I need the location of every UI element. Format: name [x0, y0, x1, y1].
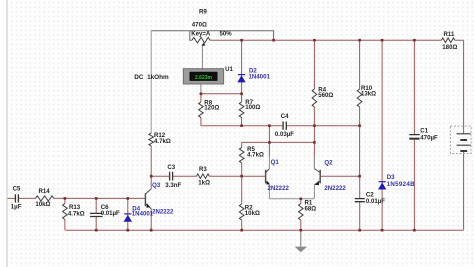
svg-text:Q1: Q1: [271, 159, 280, 166]
svg-text:C4: C4: [281, 113, 289, 120]
svg-text:470µF: 470µF: [420, 135, 438, 142]
svg-text:Key=A: Key=A: [191, 31, 211, 38]
svg-text:180Ω: 180Ω: [442, 44, 457, 51]
svg-text:U1: U1: [225, 66, 233, 73]
svg-text:2.623m: 2.623m: [195, 75, 213, 81]
svg-text:R11: R11: [444, 31, 455, 38]
svg-text:Q2: Q2: [324, 159, 333, 166]
svg-text:1kΩ: 1kΩ: [198, 180, 210, 187]
svg-text:10kΩ: 10kΩ: [35, 201, 50, 208]
svg-text:3.3nF: 3.3nF: [165, 182, 181, 189]
svg-text:0.01µF: 0.01µF: [101, 210, 120, 217]
svg-text:1µF: 1µF: [11, 204, 22, 211]
svg-text:68Ω: 68Ω: [305, 205, 317, 212]
svg-text:DC 1kOhm: DC 1kOhm: [134, 74, 169, 81]
svg-text:560Ω: 560Ω: [318, 92, 333, 99]
svg-text:2N2222: 2N2222: [152, 209, 174, 216]
svg-text:C1: C1: [420, 128, 428, 135]
svg-text:D3: D3: [387, 174, 395, 181]
svg-text:0.03µF: 0.03µF: [275, 131, 294, 138]
svg-text:50%: 50%: [220, 31, 233, 38]
svg-text:4.7kΩ: 4.7kΩ: [247, 152, 264, 159]
svg-text:470Ω: 470Ω: [192, 21, 207, 28]
svg-text:13kΩ: 13kΩ: [361, 91, 376, 98]
svg-text:Q3: Q3: [152, 182, 161, 189]
svg-text:R14: R14: [39, 188, 51, 195]
svg-text:4.7kΩ: 4.7kΩ: [154, 138, 171, 145]
svg-text:10kΩ: 10kΩ: [245, 210, 260, 217]
svg-text:4.7kΩ: 4.7kΩ: [68, 210, 85, 217]
svg-text:2N2222: 2N2222: [268, 185, 290, 192]
svg-text:1N5924B: 1N5924B: [387, 181, 415, 188]
svg-text:100Ω: 100Ω: [245, 104, 260, 111]
svg-text:120Ω: 120Ω: [204, 105, 219, 112]
svg-text:C5: C5: [13, 186, 21, 193]
svg-text:1N4001: 1N4001: [132, 211, 154, 218]
svg-text:1N4001: 1N4001: [249, 73, 271, 80]
svg-text:C3: C3: [167, 164, 175, 171]
svg-text:R9: R9: [199, 8, 207, 15]
svg-text:R3: R3: [199, 166, 207, 173]
svg-text:2N2222: 2N2222: [324, 185, 346, 192]
svg-text:0.01µF: 0.01µF: [366, 198, 385, 205]
